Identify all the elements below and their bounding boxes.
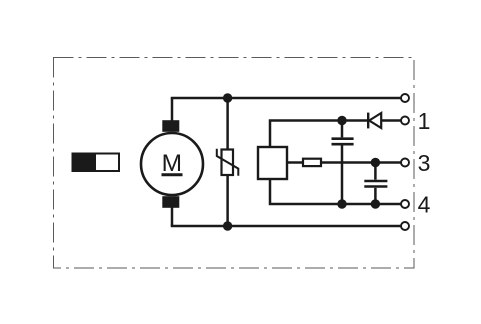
boundary dash-dot frame xyxy=(54,58,415,269)
node junction bottom rail C2 xyxy=(371,199,380,208)
node junction top (varistor tap) xyxy=(223,93,232,102)
wire node A to diode xyxy=(342,119,368,122)
node A junction xyxy=(337,116,346,125)
capacitor C2 top lead xyxy=(374,163,377,180)
terminal 4 xyxy=(401,200,409,208)
resistor R1 body xyxy=(303,159,321,166)
wire box top loop to node A xyxy=(270,121,342,148)
capacitor C1 plates xyxy=(332,137,354,140)
wire motor top lead xyxy=(171,98,174,126)
node junction bottom rail C1 xyxy=(337,199,346,208)
svg-text:1: 1 xyxy=(418,108,431,134)
wire top rail xyxy=(171,97,401,100)
terminal bottom (unlabeled) xyxy=(401,222,409,230)
terminal 3 xyxy=(401,159,409,167)
varistor R_V body xyxy=(222,150,234,176)
wire varistor top lead xyxy=(226,98,229,150)
capacitor C1 top lead xyxy=(341,121,344,138)
svg-text:3: 3 xyxy=(418,150,431,176)
wire box bottom loop to terminal 4 rail xyxy=(270,179,401,204)
motor label underline xyxy=(162,173,183,176)
capacitor C1 bottom lead (crosses middle wire) xyxy=(341,146,344,205)
motor brush bottom xyxy=(162,196,179,208)
wire varistor bottom lead xyxy=(226,175,229,226)
diode V1 cathode bar xyxy=(367,113,369,129)
control unit box U1 xyxy=(258,147,287,179)
wire bottom rail xyxy=(171,225,401,228)
wire box to resistor xyxy=(287,161,303,164)
node junction bottom (varistor tap) xyxy=(223,221,232,230)
diode V1 triangle xyxy=(369,113,381,128)
capacitor C2 plates xyxy=(364,180,387,183)
node junction middle (C2 tap) xyxy=(371,158,380,167)
permanent magnet symbol xyxy=(72,153,120,173)
svg-text:M: M xyxy=(162,150,182,177)
wire motor bottom lead xyxy=(171,202,174,226)
wire resistor to terminal 3 xyxy=(321,161,401,164)
motor M armature circle xyxy=(141,133,203,195)
terminal top (unlabeled) xyxy=(401,94,409,102)
svg-text:4: 4 xyxy=(418,192,431,218)
motor brush top xyxy=(162,120,179,132)
varistor diagonal stroke xyxy=(217,149,239,176)
terminal 1 xyxy=(401,117,409,125)
wire diode to terminal 1 xyxy=(381,119,400,122)
capacitor C2 bottom lead xyxy=(374,188,377,204)
